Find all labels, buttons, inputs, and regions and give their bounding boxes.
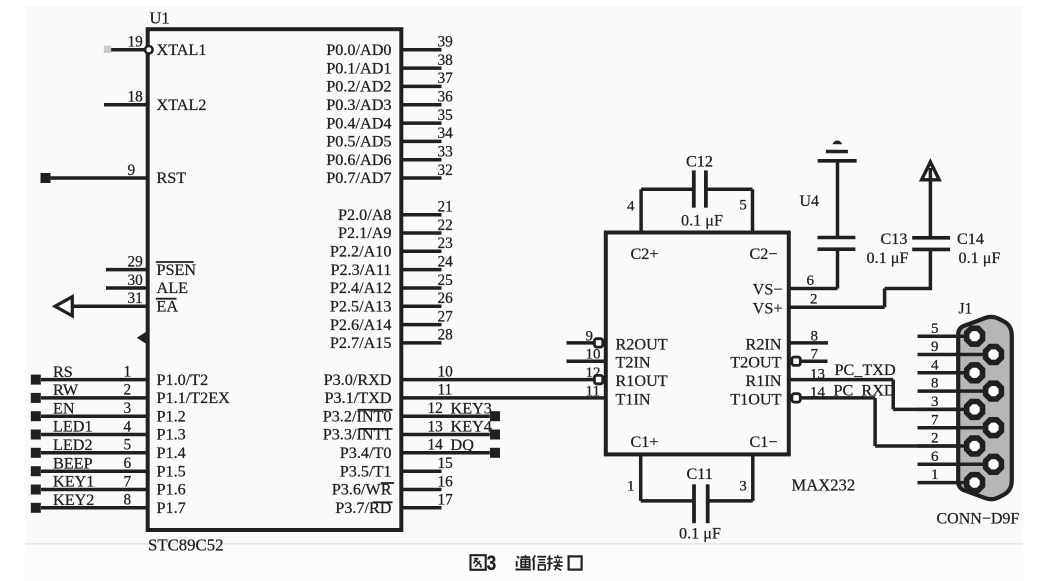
U1 pin 22 P2.1/A9 wire [401,217,452,234]
J1 pin 9 wire [918,339,994,355]
U1 pin 9 RST wire [51,162,148,179]
svg-text:12: 12 [428,400,443,417]
U1 pin 32 P0.7/AD7 wire [401,162,452,179]
svg-text:2: 2 [810,292,818,308]
J1 pin 7 wire [918,412,994,428]
U1 pin name P1.5 [157,462,186,480]
svg-text:C14: C14 [957,230,984,248]
svg-text:C11: C11 [687,465,713,483]
C14 refdes [957,230,984,248]
svg-text:4: 4 [627,199,635,215]
svg-text:P2.5/A13: P2.5/A13 [330,298,392,316]
capacitor C12 [694,170,706,207]
C14 value [959,249,1001,267]
svg-text:P1.0/T2: P1.0/T2 [157,371,209,389]
U1 pin name P3.3/INT1 [323,426,392,444]
svg-text:9: 9 [586,328,594,344]
svg-text:3: 3 [487,552,497,575]
svg-text:P2.4/A12: P2.4/A12 [330,279,392,297]
svg-text:P2.7/A15: P2.7/A15 [330,334,392,352]
svg-text:RS: RS [53,363,73,381]
svg-text:26: 26 [438,290,454,307]
svg-text:XTAL1: XTAL1 [157,41,207,59]
svg-text:PC_RXD: PC_RXD [834,381,896,399]
U1 pin name PSEN (overlined) [156,261,197,279]
svg-text:6: 6 [931,449,939,465]
net label KEY2 [53,491,94,509]
MAX232 pin name VS+ [753,299,783,317]
svg-text:C13: C13 [881,230,908,248]
svg-text:16: 16 [438,473,454,490]
J1 pin 8 wire [918,376,994,392]
U1 pin name P0.4/AD4 [326,114,391,132]
svg-text:14: 14 [810,385,826,401]
U1 pin name P3.6/WR [332,481,392,499]
U1 pin 8 P1.7 / net KEY2 wire [41,492,148,509]
svg-text:3: 3 [124,400,132,417]
MAX232 pin 11 number [586,383,600,399]
J1 pin 4 wire [918,357,975,373]
U1 pin 39 P0.0/AD0 wire [401,34,453,51]
svg-text:6: 6 [124,455,132,472]
MAX232 pin 5 wire to C12 [708,189,753,232]
U1 pin name P3.0/RXD [324,371,392,389]
U1 pin name P3.4/T0 [340,444,392,462]
svg-text:P1.4: P1.4 [157,444,186,462]
U1 pin name P1.3 [157,426,186,444]
svg-text:10: 10 [586,347,601,363]
U1 pin 5 P1.4 / net LED2 wire [41,437,148,454]
MAX232 pin name T2OUT [730,354,781,372]
svg-text:2: 2 [931,431,939,447]
MAX232 pin name R2OUT [616,335,668,353]
net label KEY3 [451,399,492,417]
BEEP terminal square [31,466,41,476]
J1 pin 4 hole [967,365,983,381]
U1 pin 27 P2.6/A14 wire [401,308,453,325]
svg-text:STC89C52: STC89C52 [148,536,224,555]
J1 pin 6 hole [986,456,1002,472]
U1 pin name P0.6/AD6 [326,151,391,169]
U1 pin name P0.5/AD5 [326,133,391,151]
U1 pin 13 / net KEY4 wire [401,418,490,435]
svg-text:36: 36 [438,89,454,106]
MAX232 pin 13 R1IN wire to J1 pin 3 / net PC_TXD [789,366,975,409]
U1 pin 30 ALE wire [106,272,148,289]
svg-text:LED2: LED2 [53,436,93,454]
IC U1 STC89C52 body [148,29,402,530]
net label KEY4 [451,418,492,436]
svg-text:0.1 μF: 0.1 μF [681,212,723,230]
C13 refdes [881,230,908,248]
svg-text:8: 8 [811,328,819,344]
svg-text:5: 5 [124,437,132,454]
U1 pin 33 P0.6/AD6 wire [401,144,453,161]
svg-text:21: 21 [438,199,453,216]
svg-text:22: 22 [438,217,453,234]
svg-text:34: 34 [438,125,454,142]
J1 pin 1 wire [918,467,975,483]
svg-text:DQ: DQ [451,436,475,454]
U1 pin name P0.0/AD0 [326,41,391,59]
U1 refdes label [150,9,170,28]
svg-text:KEY4: KEY4 [451,418,492,436]
net label PC_RXD [834,381,896,399]
MAX232 pin name C1+ [631,433,659,451]
U1 pin 26 P2.5/A13 wire [401,290,453,307]
U1 pin 36 P0.3/AD3 wire [401,89,453,106]
svg-text:8: 8 [931,376,939,392]
U1 pin name P2.4/A12 [330,279,392,297]
U1 pin name RST [157,169,187,187]
svg-text:P1.2: P1.2 [157,407,186,425]
U1 pin name P1.7 [157,499,186,517]
svg-text:R1OUT: R1OUT [616,372,668,390]
svg-text:BEEP: BEEP [53,454,93,472]
svg-text:LED1: LED1 [53,418,93,436]
KEY2 terminal square [31,503,41,513]
MAX232 pin 7 T2OUT wire [802,347,828,363]
overline T1 [381,482,394,484]
J1 pin 3 wire [931,394,939,410]
U1 pin 7 P1.6 / net KEY1 wire [41,473,148,490]
svg-text:2: 2 [124,382,132,399]
net label LED2 [53,436,93,454]
U1 pin name XTAL1 [157,41,207,59]
U1 pin name P2.3/A11 [330,261,391,279]
net label RS [53,363,73,381]
U1 pin name P2.5/A13 [330,298,392,316]
U1 pin 2 P1.1/T2EX / net RW wire [41,382,148,399]
MAX232 pin name C2- [749,245,777,263]
svg-text:10: 10 [438,363,454,380]
U1 pin 35 P0.4/AD4 wire [401,107,453,124]
svg-text:P0.0/AD0: P0.0/AD0 [326,41,391,59]
J1 pin 2 wire [931,431,939,447]
wire C13/C14 to power arrow [929,168,933,238]
U1 pin name P0.2/AD2 [326,78,391,96]
capacitor U4 [818,238,856,250]
IC U MAX232 body [606,233,789,455]
svg-text:3: 3 [739,479,747,495]
svg-text:18: 18 [128,89,144,106]
svg-text:KEY3: KEY3 [451,399,492,417]
svg-text:EA: EA [157,298,179,316]
svg-text:7: 7 [931,412,939,428]
C13 value [867,249,909,267]
svg-text:P3.0/RXD: P3.0/RXD [324,371,392,389]
svg-text:1: 1 [124,363,132,380]
U1 pin name P1.6 [157,481,186,499]
svg-text:C2+: C2+ [631,245,659,263]
svg-text:T2IN: T2IN [616,354,651,372]
svg-text:VS+: VS+ [753,299,783,317]
svg-text:25: 25 [438,272,454,289]
U1 pin name P0.7/AD7 [326,169,391,187]
svg-text:33: 33 [438,144,454,161]
J1 label CONN-D9F [937,511,1020,528]
U1 pin 14 / net DQ wire [401,437,490,454]
svg-text:RST: RST [157,169,187,187]
svg-text:27: 27 [438,308,454,325]
U1 pin name P1.4 [157,444,186,462]
svg-text:P2.0/A8: P2.0/A8 [338,206,392,224]
svg-text:P0.2/AD2: P0.2/AD2 [326,78,391,96]
svg-text:P1.6: P1.6 [157,481,186,499]
svg-text:R2IN: R2IN [746,335,782,353]
MAX232 pin 2 VS+ wire to C13/C14 [789,249,931,307]
svg-text:C12: C12 [686,153,713,171]
svg-text:19: 19 [128,34,144,51]
XTAL1 clock bubble [145,46,153,54]
svg-text:C1−: C1− [749,433,777,451]
svg-text:1: 1 [931,467,939,483]
U1 pin name P2.0/A8 [338,206,392,224]
U1 pin 21 P2.0/A8 wire [401,199,452,216]
MAX232 pin 10 T2IN wire [567,347,606,363]
U1 pin name XTAL2 [157,96,207,114]
U1 pin 1 P1.0/T2 / net RS wire [41,363,148,380]
svg-text:38: 38 [438,52,454,69]
U1 pin name P3.2/INT0 [323,407,392,425]
LED2 terminal square [31,448,41,458]
svg-text:11: 11 [586,383,600,399]
wire U1 P3.0/RXD to MAX232 R1OUT [401,363,593,380]
MAX232 pin name T2IN [616,354,651,372]
svg-text:29: 29 [128,253,144,270]
svg-text:6: 6 [807,273,815,289]
U1 pin 25 P2.4/A12 wire [401,272,453,289]
J1 pin 3 hole [967,402,983,418]
svg-text:P1.5: P1.5 [157,462,186,480]
svg-text:17: 17 [438,492,454,509]
J1 pin 6 wire [918,449,994,465]
MAX232 pin 6 VS- wire to U4 [789,249,838,289]
svg-text:R2OUT: R2OUT [616,335,668,353]
U1 pin 34 P0.5/AD5 wire [401,125,453,142]
edge arrowhead marker [137,331,148,345]
wire U4 to ground [836,162,840,238]
MAX232 pin name C1- [749,433,777,451]
net label RW [53,381,79,399]
svg-text:T2OUT: T2OUT [730,354,781,372]
svg-text:C1+: C1+ [631,433,659,451]
ground symbol [818,141,857,161]
svg-text:PC_TXD: PC_TXD [835,361,896,379]
svg-text:15: 15 [438,455,454,472]
svg-text:P0.4/AD4: P0.4/AD4 [326,114,391,132]
MAX232 pin 9 R2OUT wire [567,328,594,344]
C12 value 0.1 uF [681,212,723,230]
U1 pin 4 P1.3 / net LED1 wire [41,418,148,435]
KEY1 terminal square [31,485,41,495]
svg-text:U1: U1 [150,9,170,28]
U1 pin name P2.7/A15 [330,334,392,352]
U1 pin 23 P2.2/A10 wire [401,235,453,252]
svg-text:37: 37 [438,70,454,87]
U1 pin 19 XTAL1 wire [108,34,148,51]
U1 pin name P3.7/RD [335,499,392,517]
svg-text:P0.3/AD3: P0.3/AD3 [326,96,391,114]
KEY4 terminal square [490,430,500,440]
U1 pin name P1.0/T2 [157,371,209,389]
svg-text:P2.6/A14: P2.6/A14 [330,316,392,334]
power arrow VCC [922,162,940,180]
T2OUT bubble [792,357,800,365]
U1 pin 18 XTAL2 wire [104,89,148,106]
svg-text:KEY2: KEY2 [53,491,94,509]
U1 pin 16 wire [401,473,453,490]
RS terminal square [31,375,41,385]
svg-text:CONN−D9F: CONN−D9F [937,511,1020,528]
U4 refdes [800,193,820,210]
svg-text:9: 9 [128,162,136,179]
R1OUT bubble [594,375,602,383]
net label BEEP [53,454,93,472]
overline INT1 [359,428,393,430]
MAX232 pin name R1IN [746,372,782,390]
U1 pin 29 PSEN wire [106,253,148,270]
U1 pin 6 P1.5 / net BEEP wire [41,455,148,472]
svg-text:13: 13 [428,418,444,435]
MAX232 pin name C2+ [631,245,659,263]
MAX232 value label [792,476,856,495]
U1 pin name ALE [157,279,189,297]
svg-text:R1IN: R1IN [746,372,782,390]
J1 refdes [959,301,973,318]
J1 pin 2 hole [967,438,983,454]
J1 pin 5 wire [918,321,975,337]
U1 pin 28 P2.7/A15 wire [401,327,453,344]
overline WR [373,501,393,503]
svg-text:4: 4 [931,357,939,373]
EA input arrow [55,297,72,316]
svg-text:J1: J1 [959,301,973,318]
MAX232 pin 8 R2IN wire [789,328,828,344]
svg-text:7: 7 [811,347,819,363]
svg-text:P0.6/AD6: P0.6/AD6 [326,151,391,169]
svg-text:28: 28 [438,327,454,344]
U1 pin 12 / net KEY3 wire [401,400,490,417]
net label DQ [451,436,475,454]
svg-text:3: 3 [931,394,939,410]
svg-text:P0.5/AD5: P0.5/AD5 [326,133,391,151]
U1 pin 31 EA wire [73,290,148,307]
U1 pin 37 P0.2/AD2 wire [401,70,453,87]
svg-text:7: 7 [124,473,132,490]
MAX232 pin 4 wire to C12 [627,189,692,232]
svg-text:RW: RW [53,381,79,399]
pin 19 wire end marker [104,46,111,53]
U1 pin 3 P1.2 / net EN wire [41,400,148,417]
J1 pin 2 wire segment [918,444,975,448]
svg-text:C2−: C2− [749,245,777,263]
svg-text:PSEN: PSEN [157,261,197,279]
connector J1 CONN-D9F body [958,317,1012,499]
svg-text:P1.3: P1.3 [157,426,186,444]
U1 pin name P3.1/TXD [324,389,391,407]
svg-text:P0.7/AD7: P0.7/AD7 [326,169,391,187]
net label EN [53,399,75,417]
svg-text:31: 31 [128,290,143,307]
svg-text:P2.1/A9: P2.1/A9 [338,224,392,242]
MAX232 pin name R1OUT [616,372,668,390]
svg-text:0.1 μF: 0.1 μF [959,249,1001,267]
RST wire terminal square [41,173,51,183]
DQ terminal square [490,448,500,458]
svg-text:11: 11 [438,382,453,399]
svg-text:30: 30 [128,272,144,289]
U1 pin name P1.2 [157,407,186,425]
net label KEY1 [53,473,94,491]
J1 pin 7 hole [986,420,1002,436]
svg-text:1: 1 [627,479,635,495]
T1OUT bubble [792,394,800,402]
MAX232 pin name R2IN [746,335,782,353]
svg-text:9: 9 [931,339,939,355]
MAX232 pin 3 wire to C11 [709,454,753,501]
svg-text:T1OUT: T1OUT [730,390,781,408]
svg-text:4: 4 [124,418,132,435]
svg-text:0.1 μF: 0.1 μF [679,525,721,543]
svg-text:14: 14 [428,437,444,454]
svg-text:P3.4/T0: P3.4/T0 [340,444,392,462]
svg-text:0.1 μF: 0.1 μF [867,249,909,267]
svg-text:P3.5/T1: P3.5/T1 [340,462,392,480]
J1 pin 3 wire segment [918,408,975,412]
net label LED1 [53,418,93,436]
U1 pin 38 P0.1/AD1 wire [401,52,453,69]
R2OUT bubble [594,339,602,347]
U1 pin name P1.1/T2EX [157,389,231,407]
MAX232 pin 1 wire to C11 [627,454,692,501]
net label PC_TXD [835,361,896,379]
svg-text:P3.1/TXD: P3.1/TXD [324,389,391,407]
J1 pin 9 hole [986,347,1002,363]
svg-text:P0.1/AD1: P0.1/AD1 [326,59,391,77]
U1 pin 17 wire [401,492,453,509]
MAX232 pin name T1IN [616,390,651,408]
J1 pin 8 hole [986,383,1002,399]
EN terminal square [31,411,41,421]
U1 pin 24 P2.3/A11 wire [401,253,453,270]
C11 value 0.1 uF [679,525,721,543]
RW terminal square [31,393,41,403]
U1 pin name EA (overlined) [156,298,179,316]
svg-text:P1.7: P1.7 [157,499,186,517]
svg-text:KEY1: KEY1 [53,473,94,491]
svg-text:5: 5 [931,321,939,337]
LED1 terminal square [31,430,41,440]
wire U1 P3.1/TXD to MAX232 T1IN [401,382,606,399]
svg-text:23: 23 [438,235,454,252]
svg-text:35: 35 [438,107,454,124]
svg-text:EN: EN [53,399,75,417]
MAX232 pin 12 number [586,365,601,381]
svg-text:P1.1/T2EX: P1.1/T2EX [157,389,231,407]
svg-text:5: 5 [739,198,747,214]
U1 pin name P0.3/AD3 [326,96,391,114]
svg-text:P2.2/A10: P2.2/A10 [330,243,392,261]
svg-text:XTAL2: XTAL2 [157,96,207,114]
U1 pin 15 wire [401,455,453,472]
svg-text:13: 13 [810,366,825,382]
capacitor C11 [694,484,708,523]
svg-text:8: 8 [124,492,132,509]
MAX232 pin name T1OUT [730,390,781,408]
C11 refdes [687,465,713,483]
svg-text:MAX232: MAX232 [792,476,856,495]
